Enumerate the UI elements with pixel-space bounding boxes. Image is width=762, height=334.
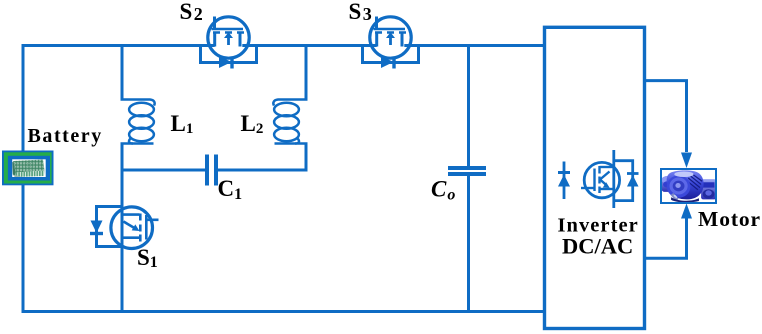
- svg-text:C1: C1: [218, 176, 243, 203]
- svg-text:Co: Co: [431, 177, 455, 204]
- svg-text:S2: S2: [180, 0, 203, 24]
- svg-text:Motor: Motor: [698, 207, 761, 231]
- svg-text:DC/AC: DC/AC: [562, 234, 633, 259]
- svg-text:S1: S1: [137, 245, 158, 271]
- svg-text:Battery: Battery: [28, 125, 103, 147]
- svg-text:L1: L1: [171, 111, 194, 137]
- svg-text:S3: S3: [349, 0, 372, 24]
- svg-text:L2: L2: [241, 111, 264, 137]
